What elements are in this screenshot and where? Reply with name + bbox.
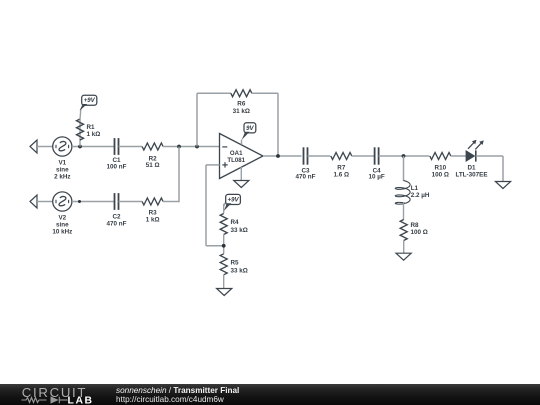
svg-text:10 kHz: 10 kHz <box>52 228 72 235</box>
resistor R2 <box>142 143 163 150</box>
label L1 2.2 uH <box>411 185 430 199</box>
label R5 33 kOhm <box>231 260 248 275</box>
svg-text:31 kΩ: 31 kΩ <box>233 108 250 115</box>
label R7 1.6 Ohm <box>334 164 350 178</box>
+9V supply flag (R1) <box>80 95 97 110</box>
node (L1 tap) <box>402 154 406 158</box>
svg-text:+9V: +9V <box>84 97 96 104</box>
wire <box>37 146 53 148</box>
footer bar <box>0 384 540 405</box>
wire <box>241 140 243 145</box>
wire <box>263 155 302 157</box>
ground (output) <box>495 182 510 189</box>
label R8 100 Ohm <box>411 222 428 236</box>
wire <box>352 155 375 157</box>
svg-text:R8: R8 <box>411 222 420 229</box>
svg-text:9V: 9V <box>246 125 254 132</box>
label C4 10 uF <box>368 167 384 180</box>
ground (op-amp) <box>234 181 249 188</box>
inductor L1 <box>395 181 410 205</box>
node (V2 terminal) <box>78 200 81 203</box>
label D1 LTL-307EE <box>455 164 487 178</box>
resistor R8 <box>400 220 407 241</box>
svg-text:R4: R4 <box>231 219 240 226</box>
wire <box>252 93 278 156</box>
label V2 sine 10 kHz <box>52 214 72 235</box>
svg-text:C2: C2 <box>112 213 121 220</box>
wire <box>240 167 242 181</box>
resistor R1 <box>77 119 84 140</box>
resistor R3 <box>142 198 163 205</box>
svg-text:470 nF: 470 nF <box>296 174 316 181</box>
node (V1/R1 junction) <box>78 145 82 149</box>
svg-text:R3: R3 <box>149 209 158 216</box>
input terminal flag (V2 branch) <box>30 195 37 208</box>
svg-text:R5: R5 <box>231 260 240 267</box>
label R6 31 kOhm <box>233 101 250 115</box>
wire <box>72 146 114 148</box>
9V supply flag (op-amp V+) <box>242 123 256 140</box>
svg-text:D1: D1 <box>467 164 476 171</box>
svg-text:+9V: +9V <box>228 197 240 204</box>
ground (R8) <box>396 253 411 260</box>
node (R2/R3 junction) <box>177 145 181 149</box>
resistor R7 <box>331 153 352 160</box>
diode D1 (LED) <box>466 140 484 162</box>
+9V supply flag (R4) <box>224 194 241 211</box>
svg-text:sine: sine <box>56 166 69 173</box>
node (output/feedback junction) <box>276 154 280 158</box>
wire <box>119 201 143 203</box>
capacitor C4 <box>375 147 379 164</box>
wire <box>80 104 84 120</box>
wire <box>379 155 430 157</box>
svg-text:2.2 µH: 2.2 µH <box>411 192 430 199</box>
label C2 470 nF <box>107 213 127 227</box>
wire <box>308 155 331 157</box>
op-amp OA1 <box>220 134 264 179</box>
capacitor C1 <box>115 138 119 155</box>
svg-text:sine: sine <box>56 221 69 228</box>
wire <box>197 93 231 146</box>
wire <box>451 155 466 157</box>
svg-text:R10: R10 <box>435 164 447 171</box>
label R10 100 Ohm <box>432 164 449 178</box>
svg-text:100 Ω: 100 Ω <box>432 172 449 179</box>
ground (R5) <box>217 289 232 296</box>
capacitor C2 <box>115 193 119 210</box>
svg-text:L1: L1 <box>411 185 419 192</box>
wire <box>476 156 503 182</box>
wire <box>224 202 226 214</box>
resistor R6 <box>231 90 252 97</box>
svg-text:33 kΩ: 33 kΩ <box>231 267 248 274</box>
wire <box>223 235 225 254</box>
label R1 1 kOhm <box>87 124 101 138</box>
label V1 sine 2 kHz <box>54 159 70 180</box>
svg-text:100 nF: 100 nF <box>107 164 127 171</box>
wire <box>163 146 219 148</box>
voltage source V2 <box>53 192 72 211</box>
svg-text:R1: R1 <box>87 124 96 131</box>
capacitor C3 <box>304 147 308 164</box>
label C1 100 nF <box>107 157 127 170</box>
label R4 33 kOhm <box>231 219 248 234</box>
label OA1 TL081 <box>227 150 245 164</box>
resistor R5 <box>220 254 227 275</box>
resistor R10 <box>430 153 451 160</box>
input terminal flag (V1 branch) <box>30 140 37 153</box>
svg-text:R6: R6 <box>237 101 246 108</box>
CircuitLab logo <box>0 384 100 405</box>
voltage source V1 <box>53 137 72 156</box>
svg-text:100 Ω: 100 Ω <box>411 229 428 236</box>
wire <box>403 203 405 220</box>
svg-text:1.6 Ω: 1.6 Ω <box>334 172 350 179</box>
svg-text:33 kΩ: 33 kΩ <box>231 227 248 234</box>
svg-text:1 kΩ: 1 kΩ <box>146 216 160 223</box>
label C3 470 nF <box>296 167 316 180</box>
svg-text:10 µF: 10 µF <box>368 174 384 181</box>
svg-text:51 Ω: 51 Ω <box>146 162 160 169</box>
resistor R4 <box>220 214 227 235</box>
node (feedback tap) <box>195 145 199 149</box>
svg-text:1 kΩ: 1 kΩ <box>87 131 101 138</box>
wire <box>79 120 81 147</box>
label R2 51 Ohm <box>146 156 160 170</box>
wire <box>37 201 53 203</box>
wire <box>223 275 225 289</box>
label R3 1 kOhm <box>146 209 160 223</box>
svg-text:R7: R7 <box>337 164 346 171</box>
wire <box>119 146 143 148</box>
wire <box>72 201 114 203</box>
wire <box>403 156 405 181</box>
svg-text:LAB: LAB <box>68 395 94 405</box>
svg-text:LTL-307EE: LTL-307EE <box>455 172 487 179</box>
wire <box>163 147 179 203</box>
node (R4/R5 junction) <box>222 244 226 248</box>
wire <box>403 241 405 254</box>
svg-text:470 nF: 470 nF <box>107 220 127 227</box>
wire <box>206 165 224 246</box>
svg-text:TL081: TL081 <box>227 157 245 164</box>
svg-text:2 kHz: 2 kHz <box>54 173 70 180</box>
